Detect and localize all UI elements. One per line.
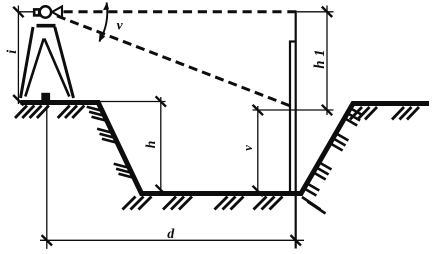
tick d right [291, 235, 301, 245]
tick h1 top [322, 7, 332, 17]
svg-text:h1: h1 [312, 45, 328, 68]
hatching trench bottom [123, 197, 283, 210]
svg-text:d: d [167, 227, 175, 242]
staff right edge / vertical extension line [295, 13, 297, 249]
dimension h: vertical line [160, 97, 162, 194]
tick v bottom [253, 186, 263, 196]
extension line sight reading level [253, 109, 334, 111]
tripod left leg [21, 27, 34, 98]
tick d left [42, 235, 52, 245]
tripod inner leg right [44, 39, 69, 97]
dimension i: vertical line [17, 6, 19, 105]
svg-text:h: h [143, 141, 158, 149]
hatching right bank [350, 107, 419, 120]
level instrument: eyepiece square [34, 9, 39, 15]
tick h top [156, 96, 166, 106]
staff (levelling rod) left edge [289, 41, 291, 194]
level instrument: body circle [40, 6, 51, 17]
level instrument: telescope cone [52, 6, 62, 17]
extension line sight line to h1 [297, 11, 334, 13]
staff top cap [289, 40, 297, 42]
svg-text:v: v [241, 145, 255, 151]
ground profile: left bank, trench slopes and bottom [21, 103, 430, 194]
arc arrow bottom [99, 33, 105, 42]
tick h bottom [156, 185, 166, 195]
dimension h1: vertical line [326, 6, 328, 116]
svg-text:i: i [5, 50, 20, 54]
tripod inner leg left [25, 39, 43, 97]
tick i bottom [13, 95, 23, 105]
tick i top [13, 7, 23, 17]
sight line inclined (dashed) [57, 16, 290, 106]
dimension d: horizontal line [40, 239, 304, 241]
extension line ground level to h [98, 101, 165, 103]
hatching right slope [302, 108, 363, 214]
sight line horizontal (dashed) [64, 10, 297, 13]
benchmark stake under instrument [41, 93, 50, 101]
tripod head plate [37, 24, 56, 28]
tripod right leg [55, 27, 74, 98]
hatching left bank [15, 106, 84, 119]
dimension i: connector to instrument [18, 11, 34, 13]
extension line d left (plumb of instrument) [46, 106, 48, 249]
hatching left slope [87, 107, 134, 178]
tick v top [253, 105, 263, 115]
angle arc v [99, 3, 107, 42]
arc arrow top [103, 2, 109, 10]
dimension v: vertical line [257, 106, 259, 194]
svg-text:v: v [117, 18, 124, 33]
tick h1 bottom [322, 105, 332, 115]
